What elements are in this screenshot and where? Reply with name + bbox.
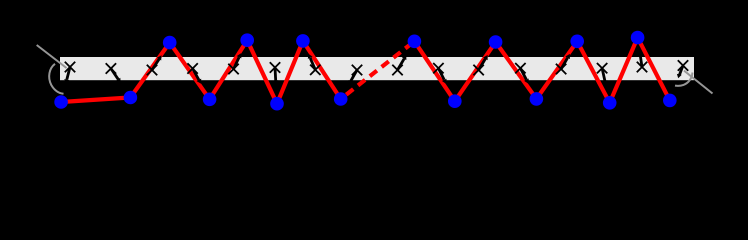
wire B7-T7 — [610, 38, 638, 103]
right leader line — [684, 71, 713, 94]
left leader line — [37, 45, 67, 68]
arrow s6 to B3 — [273, 68, 278, 86]
arrow s7 to T3 — [308, 54, 316, 70]
node B4 — [334, 92, 348, 106]
wire T7-B8 — [638, 38, 670, 101]
arrow s13 to T6 — [561, 54, 570, 69]
site x s7 — [310, 65, 320, 75]
site x s10 — [433, 63, 443, 73]
wire T5-B6 — [496, 42, 537, 99]
node B2 — [203, 93, 217, 107]
wire T2-B3 — [247, 40, 277, 103]
node T2 — [240, 33, 254, 47]
node B3 — [270, 97, 284, 111]
wire B2-T2 — [210, 40, 248, 99]
wire B5-T5 — [455, 42, 496, 101]
arrow s8 to B4 — [348, 70, 357, 85]
wire T6-B7 — [577, 41, 610, 103]
wire B0-B1 — [61, 98, 130, 103]
node T7 — [631, 31, 645, 45]
site x s11 — [473, 65, 483, 75]
site x s9 — [392, 65, 402, 75]
dashed wire B4-T4 — [341, 41, 415, 99]
site x s5 — [228, 64, 238, 74]
site x s4 — [187, 63, 197, 73]
node B6 — [530, 92, 544, 106]
arrow s1 to B0 — [64, 67, 70, 84]
node B8 — [663, 94, 677, 108]
wire T4-B5 — [414, 41, 454, 101]
arrow s4 to B2 — [193, 69, 202, 84]
wire B1-T1 — [130, 43, 169, 98]
arrow s14 to B7 — [602, 68, 607, 85]
node T5 — [489, 35, 503, 49]
arrow s16 to B8 — [677, 66, 683, 79]
site x s13 — [556, 64, 566, 74]
node B0 — [54, 95, 68, 109]
arrow s9 to T4 — [398, 55, 407, 70]
left wrap arc — [49, 64, 63, 94]
site x s6 — [270, 62, 280, 72]
arrow s15 to T7 — [638, 50, 643, 67]
arrow s5 to T2 — [234, 53, 242, 69]
node T6 — [570, 35, 584, 49]
node T1 — [163, 36, 177, 50]
site x s16 — [678, 60, 688, 70]
right wrap arc — [675, 73, 693, 86]
wire B6-T6 — [536, 41, 577, 99]
chain band — [60, 57, 694, 80]
site x s15 — [637, 62, 647, 72]
arrow s11 to T5 — [479, 55, 488, 70]
site x s1 — [65, 62, 75, 72]
arrow s3 to T1 — [152, 55, 162, 70]
site x s12 — [515, 63, 525, 73]
node B1 — [124, 91, 138, 105]
wire B3-T3 — [277, 41, 303, 104]
node T4 — [408, 35, 422, 49]
arrow s2 to B1 — [111, 69, 121, 84]
site x s8 — [352, 65, 362, 75]
arrow s12 to B6 — [520, 68, 528, 84]
wire T1-B2 — [170, 43, 210, 100]
site x s14 — [597, 63, 607, 73]
node B7 — [603, 96, 617, 110]
node T3 — [296, 34, 310, 48]
arrow s10 to B5 — [438, 68, 446, 84]
site x s2 — [106, 63, 116, 73]
site x s3 — [147, 65, 157, 75]
wire T3-B4 — [303, 41, 341, 99]
node B5 — [448, 94, 462, 108]
